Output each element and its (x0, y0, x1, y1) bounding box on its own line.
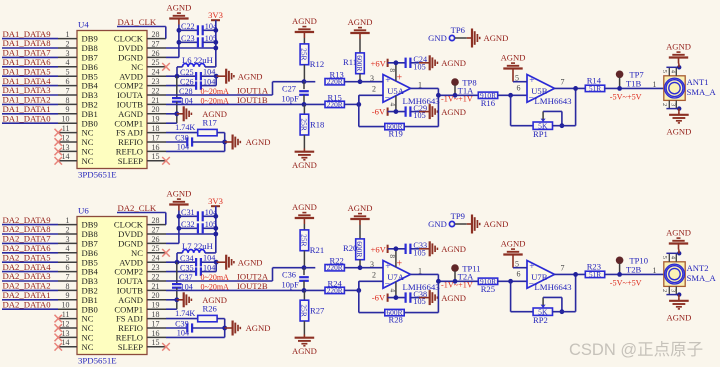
node IOUTA filter (302, 79, 307, 84)
net label IOUT2A + 0~20mA + wire IOUTA (166, 268, 304, 283)
svg-text:4: 4 (389, 103, 398, 107)
svg-text:0~20mA: 0~20mA (201, 97, 230, 106)
svg-text:3: 3 (370, 74, 374, 83)
svg-text:28: 28 (152, 30, 160, 39)
svg-text:13: 13 (62, 143, 70, 152)
ground AGND (decoupling column) (166, 3, 191, 25)
svg-text:2: 2 (661, 103, 668, 106)
power -6V rail (372, 282, 406, 303)
resistor R15 220R (304, 92, 359, 109)
svg-text:AGND: AGND (441, 244, 466, 254)
svg-text:9: 9 (66, 105, 70, 114)
svg-text:2: 2 (661, 289, 668, 292)
svg-text:AGND: AGND (292, 16, 317, 26)
svg-text:R24: R24 (328, 278, 343, 288)
svg-text:104: 104 (203, 263, 215, 272)
text -1V~+1V (441, 95, 473, 104)
net label DA2_DATA4 + wire (2, 262, 58, 272)
svg-text:-5V~+5V: -5V~+5V (610, 93, 642, 102)
svg-text:104: 104 (203, 77, 215, 86)
capacitor C39 104 (REFIO) (166, 320, 227, 338)
net label DA2_DATA8 + wire (2, 224, 58, 234)
ground AGND (pin5) + wire (501, 239, 527, 269)
resistor R16 910R (478, 91, 527, 108)
svg-text:4: 4 (389, 289, 398, 293)
ground AGND (pin5) + wire (501, 53, 527, 83)
ground pins 2,3 bottom of connector (661, 100, 681, 110)
wire DVDD pin27 to 3V3 rail (166, 232, 218, 237)
svg-text:DA1_DATA0: DA1_DATA0 (3, 113, 52, 123)
svg-text:AGND: AGND (484, 33, 509, 43)
svg-text:L7 22uH: L7 22uH (182, 241, 213, 251)
svg-text:ANT1: ANT1 (687, 77, 709, 87)
potentiometer RP2 5K (511, 274, 576, 325)
connector ANT1 SMA_A (664, 76, 717, 101)
net label DA2_DATA3 + wire (2, 271, 58, 281)
svg-text:13: 13 (62, 329, 70, 338)
svg-text:22: 22 (152, 272, 160, 281)
capacitor C29 105 (V- decoupling) (406, 104, 427, 120)
svg-text:C35: C35 (180, 263, 194, 272)
resistor R26 1.74K (FS ADJ) (166, 304, 225, 338)
svg-text:1: 1 (66, 216, 70, 225)
svg-text:R16: R16 (481, 98, 496, 108)
svg-text:-6V: -6V (372, 293, 386, 303)
svg-text:L6 22uH: L6 22uH (182, 55, 213, 65)
svg-text:1: 1 (418, 80, 422, 89)
wire AGND pin20 (166, 111, 179, 116)
wire pin3 input (360, 260, 383, 269)
svg-text:U5B: U5B (531, 86, 548, 96)
svg-text:1: 1 (653, 266, 657, 275)
svg-text:24: 24 (152, 254, 160, 263)
svg-text:25R: 25R (300, 118, 309, 130)
capacitor C27 10pF (282, 82, 309, 105)
ground AGND below connector (666, 295, 691, 323)
svg-text:R21: R21 (310, 245, 324, 255)
svg-text:15: 15 (152, 152, 160, 161)
svg-text:C25: C25 (180, 68, 194, 77)
capacitor C30 104 (REFIO) (166, 134, 227, 152)
wire DGND pin26 to AGND rail (166, 25, 179, 58)
wire op-amp A output (411, 80, 479, 97)
svg-text:SLEEP: SLEEP (118, 156, 144, 166)
resistor R19 600R feedback (359, 88, 439, 138)
svg-text:AGND: AGND (441, 58, 466, 68)
svg-text:TP6: TP6 (451, 25, 466, 35)
wire COMP1 pin19 (166, 122, 177, 124)
svg-text:C23: C23 (181, 34, 195, 43)
svg-text:ANT2: ANT2 (687, 263, 709, 273)
svg-text:AGND: AGND (238, 257, 263, 267)
net label DA1_DATA3 + wire (2, 85, 58, 95)
svg-text:SMA_A: SMA_A (687, 87, 717, 97)
svg-text:14: 14 (62, 152, 70, 161)
svg-text:+: + (385, 76, 390, 86)
text -5V~+5V (610, 93, 642, 102)
svg-text:R12: R12 (310, 59, 324, 69)
net label DA1_DATA6 + wire (2, 57, 58, 67)
power +6V rail (371, 58, 406, 81)
svg-text:16: 16 (152, 143, 160, 152)
svg-text:R20: R20 (343, 243, 357, 253)
wire REFLO pin16 (166, 150, 225, 152)
svg-text:21: 21 (152, 282, 160, 291)
svg-text:C26: C26 (180, 77, 194, 86)
svg-text:3PD5651E: 3PD5651E (78, 170, 117, 180)
svg-text:R11: R11 (343, 57, 357, 67)
svg-text:NC: NC (82, 342, 94, 352)
svg-text:U4: U4 (78, 20, 89, 30)
net label DA1_DATA4 + wire (2, 76, 58, 86)
ground AGND above connector (666, 42, 691, 68)
net label DA2_DATA7 + wire (2, 234, 58, 244)
svg-text:RP1: RP1 (533, 129, 548, 139)
inductor L7 22uH (177, 241, 216, 262)
svg-text:+: + (529, 76, 534, 86)
net label IOUT1B + 0~20mA + wire IOUTB (166, 95, 304, 106)
svg-text:1: 1 (418, 266, 422, 275)
svg-text:DA1_CLK: DA1_CLK (118, 17, 157, 27)
svg-text:6: 6 (66, 263, 70, 272)
svg-text:1.74K: 1.74K (175, 309, 195, 318)
svg-text:20: 20 (152, 291, 160, 300)
svg-text:7: 7 (66, 86, 70, 95)
svg-text:23: 23 (152, 77, 160, 86)
svg-text:C34: C34 (180, 254, 194, 263)
svg-text:AGND: AGND (166, 3, 191, 13)
svg-text:3PD5651E: 3PD5651E (78, 356, 117, 366)
wire pin3 input (360, 74, 383, 83)
capacitor C34 104 (AVDD) (166, 254, 219, 267)
capacitor C36 10pF (282, 268, 309, 291)
resistor R23 51R (585, 261, 664, 279)
svg-text:AGND: AGND (484, 219, 509, 229)
net label DA1_CLK + wire to pin 28 (117, 17, 166, 39)
svg-text:0~20mA: 0~20mA (201, 283, 230, 292)
svg-text:C31: C31 (181, 208, 195, 217)
svg-text:C36: C36 (282, 270, 296, 279)
net label DA1_DATA5 + wire (2, 66, 58, 76)
svg-text:U6: U6 (78, 206, 89, 216)
svg-text:3: 3 (66, 49, 70, 58)
no-connect X pins 25 and 15 (162, 249, 170, 351)
capacitor C24 105 (V+ decoupling) (406, 55, 427, 71)
svg-text:AGND: AGND (348, 203, 373, 213)
op-amp U5A LMH6643 (383, 73, 440, 106)
svg-text:-5V~+5V: -5V~+5V (610, 279, 642, 288)
svg-text:12: 12 (62, 133, 70, 142)
wire op-amp A output (411, 266, 479, 283)
capacitor C37 104 (COMP1 to AVDD) (172, 262, 193, 309)
svg-text:11: 11 (62, 124, 70, 133)
svg-text:+6V: +6V (371, 244, 387, 254)
svg-text:104: 104 (177, 143, 189, 152)
svg-text:R25: R25 (481, 284, 495, 294)
svg-text:6: 6 (517, 270, 521, 279)
svg-text:15: 15 (152, 338, 160, 347)
svg-text:6: 6 (517, 84, 521, 93)
capacitor C35 104 (COMP2) (166, 262, 216, 276)
ground AGND below connector (666, 109, 691, 137)
svg-text:1.74K: 1.74K (175, 123, 195, 132)
ground AGND (below R) (292, 335, 317, 356)
svg-text:8: 8 (66, 282, 70, 291)
capacitor C38 105 (V- decoupling) (406, 290, 427, 306)
svg-text:C27: C27 (282, 84, 296, 93)
capacitor C28 104 (COMP1 to AVDD) (172, 76, 193, 123)
net label DA2_CLK + wire to pin 28 (117, 203, 166, 225)
capacitor C31 104 (179, 208, 218, 222)
resistor R18 25R (to AGND bottom) (300, 104, 325, 148)
svg-text:25: 25 (152, 244, 160, 253)
svg-text:AGND: AGND (666, 313, 691, 323)
svg-text:GND: GND (428, 33, 447, 43)
test point TP8 (451, 78, 476, 98)
svg-text:C32: C32 (181, 220, 195, 229)
svg-text:2: 2 (66, 225, 70, 234)
resistor R14 51R (585, 75, 664, 93)
svg-text:T2B: T2B (626, 264, 642, 274)
wire COMP1 pin19 (166, 308, 177, 310)
svg-text:AGND: AGND (292, 160, 317, 170)
node IOUTB filter (302, 288, 307, 293)
svg-text:14: 14 (62, 338, 70, 347)
svg-text:AGND: AGND (246, 137, 271, 147)
ground AGND (pin20) (177, 292, 227, 307)
capacitor C22 104 (179, 22, 218, 36)
node IOUTA filter (302, 265, 307, 270)
svg-text:5: 5 (66, 254, 70, 263)
svg-text:18: 18 (152, 310, 160, 319)
svg-text:19: 19 (152, 115, 160, 124)
ground AGND (V-) (419, 104, 466, 119)
svg-text:4: 4 (66, 58, 70, 67)
svg-text:9: 9 (66, 291, 70, 300)
svg-text:AGND: AGND (292, 346, 317, 356)
pin6 label (517, 84, 521, 93)
svg-text:IOUT1B: IOUT1B (237, 95, 268, 105)
net label DA2_DATA0 + wire (2, 299, 58, 309)
ground AGND (V-) (419, 290, 466, 305)
svg-text:AGND: AGND (441, 107, 466, 117)
DAC chip U4 3PD5651E (58, 20, 166, 180)
svg-text:R18: R18 (310, 120, 324, 130)
net label DA2_DATA6 + wire (2, 243, 58, 253)
svg-text:+: + (529, 262, 534, 272)
no-connect X pins 11-14 (55, 315, 63, 351)
svg-text:-6V: -6V (372, 107, 386, 117)
svg-text:LMH6643: LMH6643 (534, 96, 572, 106)
svg-text:11: 11 (62, 310, 70, 319)
svg-text:+: + (385, 262, 390, 272)
resistor R21 25R (to AGND top) (292, 202, 324, 268)
net label IOUT2B + 0~20mA + wire IOUTB (166, 281, 304, 292)
svg-text:8: 8 (66, 96, 70, 105)
pin6 label (517, 270, 521, 279)
svg-text:U5A: U5A (387, 86, 405, 96)
resistor R20 600R (bias to AGND) (343, 203, 372, 270)
svg-text:1: 1 (653, 80, 657, 89)
svg-text:27: 27 (152, 225, 160, 234)
no-connect X pins 25 and 15 (162, 63, 170, 165)
wire AGND pin20 (166, 297, 179, 302)
ground AGND (GND TP) (467, 215, 509, 234)
svg-text:25R: 25R (300, 48, 309, 60)
svg-text:CSDN @正点原子: CSDN @正点原子 (569, 340, 703, 359)
svg-text:AGND: AGND (666, 42, 691, 52)
svg-text:10pF: 10pF (282, 94, 300, 103)
wire pin2 input + feedback node (356, 270, 383, 292)
svg-text:AGND: AGND (292, 202, 317, 212)
svg-text:27: 27 (152, 39, 160, 48)
power +6V rail (371, 244, 406, 267)
svg-text:16: 16 (152, 329, 160, 338)
capacitor C23 105 (179, 34, 218, 48)
wire op-amp B output (555, 263, 586, 276)
svg-text:-1V~+1V: -1V~+1V (441, 281, 473, 290)
pin1 label ANT (653, 266, 657, 275)
ground pins 4,5 top of connector (661, 251, 681, 262)
svg-text:TP9: TP9 (451, 211, 465, 221)
svg-text:7: 7 (66, 272, 70, 281)
net label DA2_DATA9 + wire (2, 215, 58, 225)
resistor R28 600R feedback (359, 274, 439, 324)
svg-text:0~20mA: 0~20mA (201, 273, 230, 282)
svg-text:R27: R27 (310, 306, 325, 316)
svg-text:SMA_A: SMA_A (687, 273, 717, 283)
potentiometer RP1 5K (511, 88, 576, 139)
svg-text:1: 1 (66, 30, 70, 39)
svg-text:AGND: AGND (441, 293, 466, 303)
svg-text:AGND: AGND (501, 53, 526, 63)
test point TP6 GND (428, 25, 467, 43)
svg-text:105: 105 (413, 297, 425, 306)
svg-text:NC: NC (82, 156, 94, 166)
svg-text:105: 105 (413, 111, 425, 120)
svg-text:8: 8 (388, 254, 397, 258)
svg-text:-1V~+1V: -1V~+1V (441, 95, 473, 104)
svg-text:R15: R15 (328, 92, 342, 102)
svg-text:25: 25 (152, 58, 160, 67)
svg-text:26: 26 (152, 235, 160, 244)
svg-text:18: 18 (152, 124, 160, 133)
test point TP9 GND (428, 211, 467, 229)
wire output to connector (0, 0, 1, 1)
ground AGND (REF) (225, 135, 271, 150)
svg-text:AGND: AGND (238, 71, 263, 81)
svg-text:R19: R19 (389, 128, 403, 138)
svg-text:3V3: 3V3 (208, 10, 223, 20)
net label DA2_DATA1 + wire (2, 290, 58, 300)
svg-text:AGND: AGND (166, 189, 191, 199)
svg-text:12: 12 (62, 319, 70, 328)
svg-text:21: 21 (152, 96, 160, 105)
svg-text:24: 24 (152, 68, 160, 77)
net label DA2_DATA2 + wire (2, 281, 58, 291)
svg-text:GND: GND (428, 219, 447, 229)
svg-text:105: 105 (413, 62, 425, 71)
svg-text:25R: 25R (300, 304, 309, 316)
svg-text:2: 2 (372, 270, 376, 279)
capacitor C33 105 (V+ decoupling) (406, 241, 427, 257)
op-amp U7B LMH6643 (527, 261, 572, 293)
svg-text:+: + (397, 259, 403, 270)
wire op-amp B output (555, 77, 586, 90)
ground AGND above connector (666, 228, 691, 254)
resistor R24 220R (304, 278, 359, 295)
svg-text:2: 2 (66, 39, 70, 48)
net label DA1_DATA0 + wire (2, 113, 58, 123)
power 3V3 (208, 10, 223, 67)
svg-text:6: 6 (66, 77, 70, 86)
ground AGND (V+) (419, 241, 466, 256)
svg-text:U7B: U7B (531, 272, 548, 282)
net label DA2_DATA5 + wire (2, 252, 58, 262)
svg-text:LMH6643: LMH6643 (534, 282, 572, 292)
svg-text:C30: C30 (175, 134, 189, 143)
ground pins 4,5 top of connector (661, 65, 681, 76)
ground AGND (GND TP) (467, 29, 509, 48)
svg-text:0~20mA: 0~20mA (201, 87, 230, 96)
svg-text:R22: R22 (330, 256, 344, 266)
text -5V~+5V (610, 279, 642, 288)
ground AGND (V+) (419, 55, 466, 70)
connector ANT2 SMA_A (664, 262, 717, 287)
svg-text:R26: R26 (203, 304, 218, 314)
svg-text:C22: C22 (181, 22, 195, 31)
svg-text:104: 104 (177, 329, 189, 338)
svg-text:3: 3 (66, 235, 70, 244)
svg-text:10: 10 (62, 301, 70, 310)
ground AGND (AVDD) (216, 255, 262, 270)
svg-text:7: 7 (561, 77, 565, 86)
resistor R12 25R (to AGND top) (292, 16, 324, 82)
wire REFLO pin16 (166, 336, 225, 338)
svg-text:104: 104 (203, 68, 215, 77)
capacitor C32 105 (179, 220, 218, 234)
wire output to connector (0, 185, 1, 187)
resistor R25 910R (478, 277, 527, 294)
DAC chip U6 3PD5651E (58, 206, 166, 366)
svg-text:2: 2 (372, 84, 376, 93)
svg-text:28: 28 (152, 216, 160, 225)
pin1 label ANT (653, 80, 657, 89)
node C23 left (177, 40, 182, 45)
ground pins 2,3 bottom of connector (661, 286, 681, 296)
inductor L6 22uH (177, 55, 216, 76)
net label DA1_DATA9 + wire (2, 29, 58, 39)
text -1V~+1V (441, 281, 473, 290)
svg-text:RP2: RP2 (533, 315, 548, 325)
svg-text:IOUT2B: IOUT2B (237, 281, 268, 291)
svg-text:23: 23 (152, 263, 160, 272)
svg-text:R23: R23 (587, 261, 601, 271)
svg-text:C39: C39 (175, 320, 189, 329)
svg-text:U7A: U7A (387, 272, 405, 282)
svg-text:19: 19 (152, 301, 160, 310)
ground AGND (below R) (292, 149, 317, 170)
svg-text:5: 5 (66, 68, 70, 77)
resistor R22 220R (304, 256, 360, 273)
svg-text:AGND: AGND (348, 17, 373, 27)
svg-text:T1B: T1B (626, 78, 642, 88)
ground AGND (pin20) (177, 106, 227, 121)
test point TP10 (616, 256, 648, 277)
net label DA1_DATA8 + wire (2, 38, 58, 48)
svg-text:10pF: 10pF (282, 280, 300, 289)
ground AGND (REF) (225, 321, 271, 336)
